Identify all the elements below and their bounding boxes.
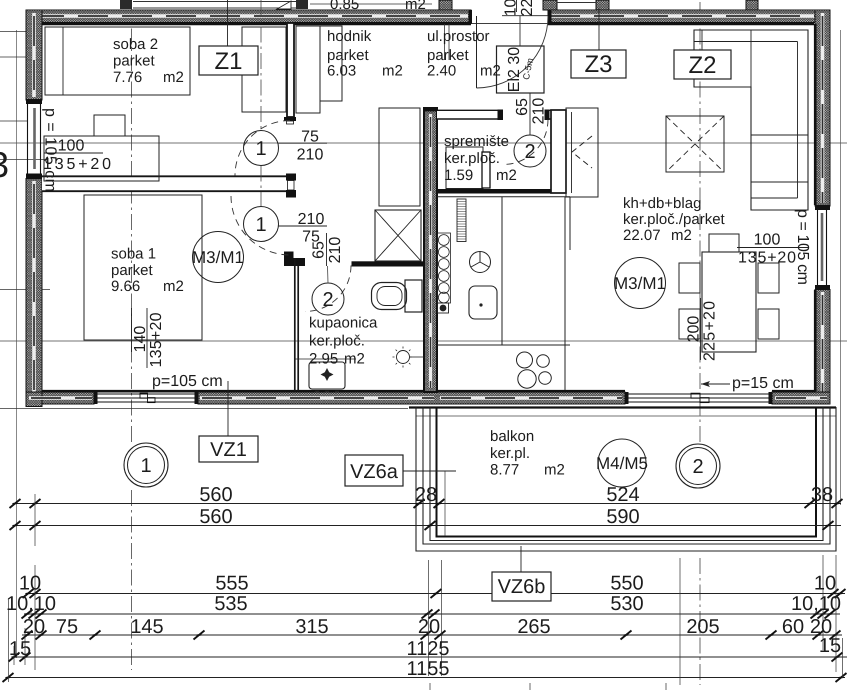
partition soba2/hodnik (287, 23, 294, 117)
svg-text:Z3: Z3 (584, 51, 612, 78)
washing machine spremiste (446, 147, 483, 189)
right margin extension line x=840.5 (840, 30, 842, 505)
svg-text:m2: m2 (405, 0, 426, 13)
bed soba2 (45, 27, 190, 95)
fraction bar dining dim (700, 298, 702, 360)
svg-text:15: 15 (9, 638, 31, 660)
spremiste door opening white (503, 109, 545, 121)
bottom exterior wall (hatched) right corner segment (772, 392, 830, 404)
entrance door swing arc (477, 16, 549, 88)
svg-text:265: 265 (517, 616, 550, 638)
svg-text:60: 60 (782, 616, 804, 638)
entrance door leaf (476, 16, 478, 88)
svg-text:100: 100 (58, 138, 85, 155)
svg-text:10: 10 (814, 573, 836, 595)
svg-text:210: 210 (298, 211, 325, 228)
left wall insulation dashes (32, 13, 36, 402)
M3/M1 circle living (615, 258, 666, 309)
svg-text:2: 2 (322, 289, 333, 311)
svg-text:VZ6a: VZ6a (350, 461, 399, 483)
svg-text:ker.ploč.: ker.ploč. (444, 150, 500, 167)
desk soba2 (44, 136, 159, 181)
svg-text:28: 28 (415, 484, 437, 506)
svg-text:530: 530 (610, 593, 643, 615)
door soba1 swing arc (dashed) (231, 196, 290, 255)
left edge dimension stub y=31.5 (0, 31, 27, 33)
M3/M1 circle soba1 (193, 232, 244, 283)
svg-text:soba 1: soba 1 (111, 246, 156, 263)
shaft box with X hodnik (375, 210, 421, 261)
dimension line D (1010-535-530-1010) (24, 613, 840, 615)
svg-text:100: 100 (503, 0, 520, 16)
svg-text:Z2: Z2 (688, 52, 716, 79)
svg-text:22.07: 22.07 (623, 227, 661, 244)
dimension line C (10-555-550-10) (28, 593, 845, 595)
svg-text:M3/M1: M3/M1 (192, 248, 244, 267)
dining chair top (709, 234, 739, 252)
svg-text:560: 560 (199, 484, 232, 506)
closet hodnik 2 (320, 26, 342, 101)
balcony door end caps (625, 392, 629, 404)
svg-text:6.03: 6.03 (327, 63, 356, 80)
svg-text:9.66: 9.66 (111, 278, 140, 295)
svg-text:m2: m2 (163, 278, 184, 295)
wall pier above entrance (hatched) (439, 0, 452, 10)
balcony slab line (416, 415, 836, 417)
svg-text:m2: m2 (382, 63, 403, 80)
kitchen dish drainer comb (457, 199, 466, 242)
balcony railing third (430, 407, 823, 541)
central interior wall (hatched) (424, 108, 437, 392)
balcony railing inner thick (437, 407, 817, 537)
door marker axis line (260, 0, 262, 207)
dimension line B (560-590) (13, 525, 841, 527)
dimension extension line balcony 28 (444, 471, 446, 536)
svg-text:65: 65 (311, 241, 328, 259)
spremiste door jamb left (498, 110, 504, 121)
door kupaonica swing arc (dashed) (305, 266, 351, 312)
svg-text:590: 590 (606, 506, 639, 528)
spremiste bottom wall (437, 189, 566, 194)
wall stub above top wall right (746, 0, 758, 10)
bottom exterior wall (hatched) center segment (198, 392, 625, 404)
svg-text:524: 524 (606, 484, 639, 506)
top wall inner face thick line (42, 22, 814, 25)
dimension line F (15-1125-15) (12, 656, 847, 658)
svg-text:parket: parket (327, 47, 370, 64)
Z2 label box (674, 50, 731, 79)
svg-text:210: 210 (531, 98, 548, 125)
entrance pier lower lines (445, 24, 450, 60)
left edge dimension stub y=57 (0, 56, 27, 58)
fraction line right window 100/135+20 (737, 247, 808, 249)
right wall window cap bottom (815, 285, 830, 290)
dimension line E (20-75-145-315-20-265-205-60-20) (22, 634, 842, 636)
toilet tank kupaonica (405, 280, 422, 312)
svg-text:555: 555 (215, 573, 248, 595)
electrical cabinet El2 box (497, 46, 545, 93)
wall stub above top wall left (120, 0, 132, 9)
central wall top cap (423, 108, 438, 112)
counter line kupaonica (294, 358, 356, 360)
svg-text:hodnik: hodnik (327, 28, 372, 45)
fraction bar entrance door dim (516, 0, 518, 12)
svg-text:balkon: balkon (490, 428, 534, 445)
svg-text:550: 550 (610, 573, 643, 595)
door marker leader and fraction 210/75 (279, 225, 328, 227)
svg-text:m2: m2 (544, 462, 565, 479)
door marker circle 1a (244, 131, 279, 166)
svg-text:145: 145 (130, 616, 163, 638)
cabinet column hodnik (379, 108, 420, 206)
balcony railing middle (423, 407, 830, 544)
svg-text:75: 75 (301, 129, 319, 146)
left exterior wall (hatched) upper segment (26, 10, 42, 100)
VZ1 label box (199, 436, 258, 462)
svg-text:M3/M1: M3/M1 (614, 274, 666, 293)
spremiste right wall (551, 110, 566, 193)
svg-text:20: 20 (418, 616, 440, 638)
window left wall (soba2) (28, 104, 41, 174)
kupaonica top wall (352, 261, 425, 266)
door soba2 swing arc (dashed) (235, 121, 290, 176)
bottom exterior wall (hatched) left of soba1 window (26, 392, 94, 404)
kitchen counter edge (437, 197, 570, 390)
balcony sliding door bottom wall (625, 394, 772, 402)
toilet bowl kupaonica (372, 283, 407, 310)
El2 leader line (519, 16, 521, 47)
p=15 cm arrow (701, 383, 730, 385)
svg-text:20: 20 (23, 616, 45, 638)
svg-text:2.40: 2.40 (427, 63, 456, 80)
svg-text:spremište: spremište (444, 133, 509, 150)
grid axis line horizontal y=341 (0, 340, 847, 342)
dining chairs left (679, 263, 700, 293)
door leaf spremiste (482, 152, 490, 188)
spremiste top partition (437, 110, 566, 120)
svg-text:ker.pl.: ker.pl. (490, 445, 530, 462)
fraction bar soba1 window dim (132, 308, 148, 368)
svg-text:225: 225 (519, 0, 536, 16)
right wall insulation dashes (821, 13, 825, 401)
svg-text:ker.ploč.: ker.ploč. (309, 333, 365, 350)
svg-text:El2 30: El2 30 (506, 47, 523, 92)
axis circle 2 (676, 444, 720, 488)
left edge dimension stub y=121 (0, 120, 27, 122)
grid axis line vertical x=700 (699, 2, 701, 685)
wall stub above top wall (entry porch right) (596, 0, 609, 10)
coffee table with X (666, 116, 724, 172)
svg-text:p=15 cm: p=15 cm (732, 375, 794, 392)
cooktop burners (517, 352, 533, 368)
right exterior wall (hatched) upper segment (815, 10, 830, 206)
kitchen boiler symbol (470, 252, 491, 273)
entrance wall end caps (469, 10, 473, 24)
door spremiste swing arc (dashed) (503, 120, 548, 165)
svg-text:7.76: 7.76 (113, 69, 142, 86)
chair soba2 (94, 115, 125, 136)
right wall window cap top (815, 205, 830, 210)
door marker leader and fraction 75/210 (279, 142, 328, 144)
svg-text:75: 75 (56, 616, 78, 638)
svg-text:135+20: 135+20 (738, 250, 796, 267)
fraction bar kupaonica door (326, 233, 328, 266)
kitchen radiator circles (438, 233, 451, 303)
window soba1 bottom (94, 394, 198, 402)
Z3 label box (571, 50, 626, 78)
entrance door threshold lines (471, 23, 548, 25)
svg-text:m2: m2 (163, 69, 184, 86)
svg-text:ul.prostor: ul.prostor (427, 28, 490, 45)
svg-text:m2: m2 (496, 167, 517, 184)
right wall inner face thick line (814, 24, 817, 391)
svg-text:38: 38 (811, 484, 833, 506)
axis circle 1 (124, 443, 168, 487)
svg-text:Z1: Z1 (214, 48, 242, 75)
svg-text:ker.ploč./parket: ker.ploč./parket (623, 211, 726, 228)
svg-text:m2: m2 (480, 63, 501, 80)
svg-text:2: 2 (524, 141, 535, 163)
balcony railing outer (416, 407, 836, 551)
bed soba1 (84, 195, 202, 340)
wall stub above top wall (entry porch left) (543, 0, 557, 10)
svg-text:parket: parket (427, 47, 470, 64)
svg-text:M4/M5: M4/M5 (596, 454, 648, 473)
left wall window cap top (26, 99, 42, 104)
Z1 label box (199, 46, 258, 75)
svg-text:100: 100 (754, 232, 781, 249)
svg-text:10: 10 (19, 573, 41, 595)
door leaf mark above wall (277, 1, 291, 9)
svg-text:3: 3 (0, 144, 9, 185)
svg-text:2.95: 2.95 (309, 351, 338, 368)
svg-text:parket: parket (111, 262, 154, 279)
svg-text:kh+db+blag: kh+db+blag (623, 195, 701, 212)
left wall window cap bottom (26, 174, 42, 179)
svg-text:m2: m2 (344, 351, 365, 368)
svg-text:205: 205 (686, 616, 719, 638)
grid axis line vertical x=131.5 (131, 2, 133, 670)
partition soba2/hodnik bottom cap (284, 117, 296, 121)
partition soba2/soba1 (42, 176, 286, 193)
svg-text:soba 2: soba 2 (113, 36, 158, 53)
entry porch line above wall (557, 2, 596, 4)
svg-text:65: 65 (514, 98, 531, 116)
partition jamb right end (286, 174, 296, 181)
svg-text:p=105 cm: p=105 cm (152, 373, 223, 390)
svg-text:1.59: 1.59 (444, 167, 473, 184)
window right wall (dining) (818, 210, 827, 285)
door marker circle 2b kupaonica (312, 283, 344, 315)
grid axis line horizontal y=143 (0, 142, 847, 144)
svg-text:p = 105 cm: p = 105 cm (794, 209, 811, 285)
balcony top edge (409, 406, 836, 408)
bottom edge axis marks (430, 683, 666, 690)
svg-text:p = 105 cm: p = 105 cm (42, 108, 59, 192)
door marker circle 2a spremiste (514, 135, 546, 167)
svg-text:m2: m2 (671, 227, 692, 244)
kitchen floor drain (438, 303, 449, 313)
svg-text:kupaonica: kupaonica (309, 315, 378, 332)
svg-text:2: 2 (692, 456, 703, 478)
sofa corner (694, 30, 808, 210)
svg-text:0.85: 0.85 (330, 0, 359, 13)
M4/M5 circle balcony (598, 439, 646, 487)
svg-text:1155: 1155 (406, 658, 449, 680)
central wall insulation dashes (429, 114, 432, 388)
dimension line G (1155) (6, 677, 845, 679)
VZ6b label box (492, 572, 551, 601)
svg-text:1: 1 (140, 455, 151, 477)
dimension line A (560-28-524-38) (13, 503, 841, 505)
VZ6a label box (345, 455, 403, 486)
svg-text:535: 535 (214, 593, 247, 615)
svg-text:1125: 1125 (406, 638, 449, 660)
dining table (702, 252, 756, 352)
dining chairs right (758, 263, 779, 293)
svg-text:8.77: 8.77 (490, 462, 519, 479)
kupaonica left partition (295, 258, 298, 391)
top wall insulation dashes (30, 14, 828, 18)
axis 3 leader line (0, 159, 48, 161)
closet soba2 (242, 27, 286, 112)
closet hodnik 1 (296, 26, 320, 113)
svg-text:210: 210 (297, 147, 324, 164)
upper storey outline above top wall (133, 2, 298, 9)
top exterior wall (hatched) (26, 10, 471, 23)
svg-text:VZ6b: VZ6b (498, 576, 546, 598)
svg-text:135+20: 135+20 (148, 312, 165, 367)
soba1 window end caps (94, 392, 98, 404)
left edge dimension stub y=408 (0, 408, 408, 410)
svg-text:parket: parket (113, 53, 156, 70)
bottom wall left corner piece (26, 392, 42, 407)
door marker circle 1b (244, 207, 279, 242)
fraction line left window 100/135+20 (44, 152, 103, 154)
left edge dimension stub y=289 (0, 289, 50, 291)
svg-text:1: 1 (255, 138, 266, 160)
left margin extension line x=16.5 (16, 30, 18, 658)
fraction bar spremiste door (529, 93, 531, 135)
bottom wall inner face thick line (42, 390, 625, 393)
spremiste door jamb right (545, 110, 550, 121)
svg-text:VZ1: VZ1 (210, 439, 247, 461)
svg-text:200: 200 (686, 316, 703, 343)
left exterior wall (hatched) lower segment (26, 179, 42, 407)
kupaonica NW jamb elbow (284, 252, 305, 267)
svg-text:10,10: 10,10 (6, 593, 56, 615)
svg-text:15: 15 (819, 635, 841, 657)
kitchen sink (469, 286, 497, 319)
svg-text:1: 1 (255, 214, 266, 236)
closet with chevron (garderoba) (566, 108, 598, 197)
svg-text:140: 140 (132, 326, 149, 353)
svg-text:10,10: 10,10 (791, 593, 841, 615)
dimension extension lines lower block (9, 494, 843, 685)
svg-text:315: 315 (295, 616, 328, 638)
bottom wall insulation dashes (29, 396, 827, 400)
right exterior wall (hatched) lower segment (815, 290, 830, 405)
svg-text:210: 210 (327, 237, 344, 264)
washbasin kupaonica (309, 362, 345, 389)
lamp symbol kupaonica (397, 351, 410, 364)
svg-text:560: 560 (199, 506, 232, 528)
